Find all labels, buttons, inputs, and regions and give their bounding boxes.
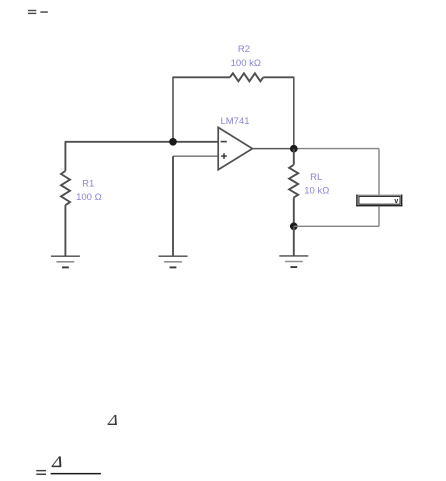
node output junction (290, 145, 298, 153)
wire R1 top to node A (65, 141, 173, 143)
wire RL bottom to ground (293, 226, 295, 256)
wire node A to op-amp inverting input (173, 141, 218, 143)
svg-text:100 Ω: 100 Ω (76, 192, 102, 203)
wire op-amp output (252, 148, 293, 150)
equation delta middle (108, 415, 117, 424)
node A junction dot (169, 138, 177, 146)
node RL bottom junction (290, 222, 298, 230)
ground below RL (279, 256, 308, 267)
wire bottom return (294, 225, 379, 227)
svg-text:10 kΩ: 10 kΩ (304, 185, 329, 196)
voltmeter U2 (356, 195, 402, 207)
ground below noninverting input (159, 256, 188, 267)
resistor RL (289, 149, 329, 227)
resistor R2 (230, 44, 263, 81)
resistor R1 (61, 142, 102, 256)
svg-text:100 kΩ: 100 kΩ (231, 58, 261, 69)
wire voltmeter bottom vertical (378, 206, 380, 226)
ground below R1 (51, 256, 80, 267)
wire output to voltmeter vertical (378, 149, 380, 195)
svg-text:v: v (394, 198, 398, 205)
wire feedback right vertical (293, 77, 295, 149)
svg-text:R2: R2 (238, 44, 250, 55)
wire feedback top right (263, 76, 294, 78)
wire noninverting to ground vertical (172, 156, 174, 256)
equation fragment "= -" top left (28, 10, 48, 14)
equation "= delta over bar" bottom (36, 456, 101, 475)
wire feedback left vertical (172, 77, 174, 142)
op-amp U1 LM741 (218, 116, 252, 170)
svg-text:RL: RL (310, 172, 322, 183)
svg-text:LM741: LM741 (220, 116, 249, 127)
svg-text:R1: R1 (82, 178, 94, 189)
wire op-amp noninverting input (173, 155, 218, 157)
wire feedback top left (173, 76, 230, 78)
